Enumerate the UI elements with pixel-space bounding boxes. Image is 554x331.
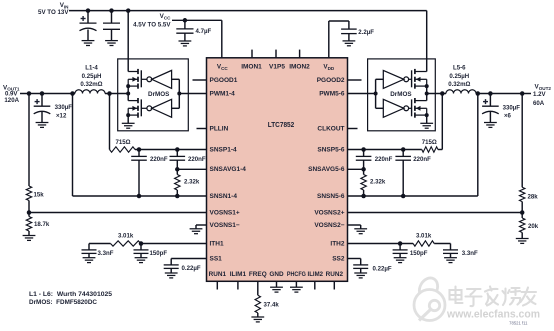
svg-text:ITH1: ITH1 bbox=[210, 241, 224, 248]
wire 4.7uF to ground bbox=[184, 33, 186, 41]
svg-text:L1 - L6: Wurth 744301025: L1 - L6: Wurth 744301025 bbox=[29, 291, 113, 298]
junction VOUT2 sense bbox=[476, 91, 481, 96]
junction snsp cap2 right bbox=[401, 147, 406, 152]
svg-text:DrMOS: DrMOS bbox=[390, 91, 411, 98]
capacitor 220nF left inner bbox=[170, 156, 186, 160]
svg-text:SNSAVG1-4: SNSAVG1-4 bbox=[210, 166, 247, 173]
node VIN rail bbox=[69, 10, 427, 12]
wire HS source to SW / LS drain right bbox=[426, 86, 428, 101]
inductor L1-4 bbox=[75, 90, 105, 94]
ground bbox=[354, 273, 367, 278]
wire HS source to SW / LS drain bbox=[127, 86, 129, 101]
svg-text:VOSNS1−: VOSNS1− bbox=[210, 222, 240, 229]
buffer right bottom driver bbox=[383, 99, 404, 117]
junction VIN bulk cap bbox=[86, 8, 91, 13]
ground bbox=[484, 123, 497, 128]
wire 18.7k to ground bbox=[28, 231, 30, 236]
resistor 3.01k right bbox=[413, 241, 434, 246]
svg-text:IMON2: IMON2 bbox=[289, 64, 310, 71]
node VCC rail bbox=[172, 19, 222, 21]
wire buffer input join bbox=[178, 79, 180, 108]
svg-text:SNSN1-4: SNSN1-4 bbox=[210, 193, 238, 200]
junction SNSN 2.32k right bbox=[361, 194, 366, 199]
ground bbox=[516, 239, 529, 244]
wire buffer2 input bbox=[172, 107, 180, 109]
wire right buffer2 input bbox=[376, 107, 384, 109]
ground bbox=[135, 258, 148, 263]
svg-text:78521 f11: 78521 f11 bbox=[509, 321, 528, 326]
junction VOUT2 divider bbox=[520, 91, 525, 96]
junction SNSN 2.32k left bbox=[175, 194, 180, 199]
wire 2.2uF stub bbox=[348, 21, 350, 29]
wire right buffer input join bbox=[375, 79, 377, 108]
wire VIN cap1 stub bbox=[87, 11, 89, 24]
capacitor 0.22uF right bbox=[353, 265, 368, 269]
transistor right low-side MOSFET bbox=[404, 98, 427, 118]
junction VOUT1 sense bbox=[70, 91, 75, 96]
svg-text:20k: 20k bbox=[528, 223, 539, 230]
svg-text:5V TO 13V: 5V TO 13V bbox=[38, 9, 69, 16]
svg-text:ITH2: ITH2 bbox=[330, 241, 344, 248]
wire 330uF right stub bbox=[489, 94, 491, 107]
wire SNSAVG1-4 bbox=[177, 168, 206, 170]
ground bbox=[354, 229, 367, 234]
node VOUT2 rail bbox=[427, 93, 446, 95]
wire SNSAVG5-6 bbox=[348, 168, 364, 170]
svg-text:0.22µF: 0.22µF bbox=[373, 265, 392, 272]
wire VOUT2 bbox=[476, 93, 531, 95]
wire VOSNS1- bbox=[196, 224, 207, 226]
ground bbox=[394, 258, 407, 263]
wire IMON2 stub bbox=[299, 50, 301, 58]
junction ITH1 bbox=[139, 241, 144, 246]
resistor 715 ohm right bbox=[422, 147, 438, 152]
wire RUN1 stub bbox=[216, 281, 218, 289]
resistor 18.7k bbox=[26, 217, 31, 232]
junction divider tap left bbox=[27, 210, 32, 215]
wire LS source to ground bbox=[127, 115, 129, 123]
junction VOUT1 cap bbox=[40, 91, 45, 96]
svg-text:VCC: VCC bbox=[160, 13, 172, 20]
watermark logo circle bbox=[414, 275, 445, 321]
wire cap2 to snsavg left bbox=[176, 160, 178, 174]
capacitor 3.3nF left bbox=[82, 250, 97, 254]
svg-text:0.25µH: 0.25µH bbox=[449, 73, 469, 80]
wire 2.2uF to ground bbox=[348, 34, 350, 41]
wire SS2 bbox=[348, 258, 361, 260]
ground bbox=[23, 236, 36, 241]
wire cap1 to ground bbox=[87, 30, 89, 41]
svg-text:VOUT2: VOUT2 bbox=[535, 84, 552, 91]
svg-text:0.25µH: 0.25µH bbox=[82, 73, 102, 80]
wire RUN2 stub bbox=[333, 281, 335, 289]
svg-text:DrMOS: FDMF5820DC: DrMOS: FDMF5820DC bbox=[29, 299, 98, 306]
svg-text:LTC7852: LTC7852 bbox=[268, 122, 295, 129]
svg-text:1.2V: 1.2V bbox=[533, 91, 546, 98]
svg-text:28k: 28k bbox=[528, 194, 539, 201]
svg-text:VOSNS2−: VOSNS2− bbox=[314, 222, 344, 229]
junction snsp cap2 left bbox=[175, 147, 180, 152]
capacitor 220nF left outer bbox=[131, 156, 147, 160]
wire 150pF gnd right bbox=[399, 253, 401, 257]
wire 2.32k to SNSN right bbox=[363, 190, 365, 196]
svg-text:L1-4: L1-4 bbox=[85, 65, 98, 72]
svg-text:www.elecfans.com: www.elecfans.com bbox=[446, 309, 540, 321]
wire cap1 stub right bbox=[363, 150, 365, 157]
wire CLKOUT stub bbox=[348, 128, 358, 130]
svg-text:715Ω: 715Ω bbox=[422, 139, 437, 146]
wire PHCFG stub bbox=[295, 281, 297, 287]
capacitor 3.3nF right bbox=[443, 250, 458, 254]
wire ITH2 right segment bbox=[434, 243, 450, 245]
wire SS1 cap stub bbox=[170, 259, 172, 265]
wire VOSNS2- stub bbox=[360, 225, 362, 229]
svg-text:SNSP1-4: SNSP1-4 bbox=[210, 147, 237, 154]
junction SNSN cap right bbox=[401, 194, 406, 199]
svg-text:SS1: SS1 bbox=[210, 256, 223, 263]
wire VOUT2 to 28k bbox=[521, 94, 523, 188]
inductor L5-6 bbox=[446, 90, 476, 94]
wire SNSN1-4 bbox=[73, 195, 207, 197]
wire SS1 bbox=[171, 258, 206, 260]
resistor 20k bbox=[520, 218, 525, 233]
wire 150pF gnd left bbox=[140, 253, 142, 257]
ground bbox=[82, 41, 95, 46]
svg-text:GND: GND bbox=[269, 271, 284, 278]
wire ILIM1 stub bbox=[237, 281, 239, 289]
wire buffer1 input bbox=[172, 78, 180, 80]
svg-text:PWM5-6: PWM5-6 bbox=[319, 91, 345, 98]
wire 3.3nF stub left bbox=[88, 244, 90, 250]
svg-text:×12: ×12 bbox=[56, 112, 67, 119]
svg-text:330µF: 330µF bbox=[55, 104, 73, 111]
wire 3.3nF gnd right bbox=[450, 253, 452, 257]
svg-text:60A: 60A bbox=[533, 100, 545, 107]
svg-text:3.3nF: 3.3nF bbox=[98, 250, 114, 257]
capacitor C 2.2uF bbox=[341, 29, 357, 33]
resistor 2.32k right bbox=[361, 175, 366, 191]
wire cap to snsavg right bbox=[363, 160, 365, 174]
wire 2.32k to SNSN left bbox=[176, 190, 178, 196]
wire VOSNS1- stub bbox=[195, 225, 197, 229]
capacitor 0.22uF left bbox=[164, 265, 179, 269]
svg-text:4.5V TO 5.5V: 4.5V TO 5.5V bbox=[133, 21, 171, 28]
wire VOUT1 to 15k bbox=[28, 94, 30, 187]
wire VOSNS2+ bbox=[348, 212, 523, 214]
capacitor 220nF right inner bbox=[356, 156, 372, 160]
svg-text:L5-6: L5-6 bbox=[453, 65, 466, 72]
wire 330uF right to ground bbox=[489, 112, 491, 123]
resistor 715 ohm left bbox=[110, 147, 136, 152]
capacitor VIN ceramic bbox=[103, 23, 120, 29]
wire GND pin stub bbox=[276, 281, 278, 287]
wire VOUT1 down to SNSN bbox=[72, 94, 74, 197]
svg-text:120A: 120A bbox=[4, 97, 19, 104]
buffer left top driver bbox=[152, 70, 172, 88]
wire 330uF to ground bbox=[41, 112, 43, 123]
wire VCC cap stub bbox=[184, 20, 186, 29]
wire 37.4k to ground bbox=[257, 313, 259, 317]
watermark chinese text (faked glyph strokes) bbox=[450, 287, 537, 307]
wire 0.22uF gnd left bbox=[170, 268, 172, 273]
svg-text:3.01k: 3.01k bbox=[416, 232, 432, 239]
wire SNSP5-6 bbox=[348, 149, 422, 151]
svg-text:0.22µF: 0.22µF bbox=[182, 265, 201, 272]
wire 150pF stub right bbox=[399, 244, 401, 250]
svg-text:PWM1-4: PWM1-4 bbox=[210, 91, 236, 98]
wire right buffer1 input bbox=[376, 78, 384, 80]
wire ITH1 left segment bbox=[89, 243, 111, 245]
capacitor 150pF left bbox=[134, 250, 149, 254]
resistor 28k bbox=[520, 187, 525, 201]
wire cap2 to ground bbox=[111, 29, 113, 40]
wire 15k to 18.7k bbox=[28, 201, 30, 217]
junction PWM input bbox=[177, 92, 181, 96]
svg-text:220nF: 220nF bbox=[413, 156, 431, 163]
wire right LS source to ground bbox=[426, 115, 428, 123]
wire ITH2 bbox=[348, 243, 414, 245]
svg-text:DrMOS: DrMOS bbox=[148, 91, 169, 98]
svg-text:SNSN5-6: SNSN5-6 bbox=[317, 193, 345, 200]
wire VIN feed into right DrMOS bbox=[426, 11, 428, 72]
junction left SW sense tap bbox=[107, 91, 112, 96]
junction VOUT2 cap bbox=[488, 91, 493, 96]
wire VDD pin up bbox=[328, 21, 330, 58]
svg-text:PLLIN: PLLIN bbox=[210, 126, 229, 133]
ground bbox=[122, 123, 135, 128]
svg-text:CLKOUT: CLKOUT bbox=[317, 126, 344, 133]
wire ITH1 bbox=[141, 243, 207, 245]
transistor left high-side MOSFET bbox=[128, 69, 152, 89]
ground bbox=[36, 123, 49, 128]
svg-text:×6: ×6 bbox=[504, 112, 512, 119]
wire cap2 stub left bbox=[176, 150, 178, 157]
wire cap2 to SNSN right bbox=[402, 160, 404, 196]
wire V1P5 stub bbox=[275, 50, 277, 58]
wire 715 corner right bbox=[438, 149, 442, 151]
svg-text:3.3nF: 3.3nF bbox=[462, 250, 478, 257]
wire SNSN up to VOUT2 bbox=[477, 94, 479, 197]
capacitor C 4.7uF bbox=[176, 29, 193, 33]
wire 330uF stub bbox=[41, 94, 43, 107]
svg-text:ILIM1: ILIM1 bbox=[230, 271, 247, 278]
wire VIN feed into left DrMOS bbox=[127, 11, 129, 72]
capacitor 330uF x6 bbox=[482, 106, 499, 114]
svg-text:VOSNS1+: VOSNS1+ bbox=[210, 210, 240, 217]
capacitor 330uF x12 bbox=[34, 106, 51, 114]
svg-text:VOSNS2+: VOSNS2+ bbox=[314, 210, 344, 217]
wire 20k to ground bbox=[521, 233, 523, 239]
wire PGOOD2 stub bbox=[348, 79, 362, 81]
svg-text:FREQ: FREQ bbox=[249, 271, 267, 278]
transistor block: right DrMOS box bbox=[368, 59, 436, 131]
wire cap1 stub left bbox=[138, 150, 140, 157]
svg-text:SNSAVG5-6: SNSAVG5-6 bbox=[308, 166, 345, 173]
junction SNSAVG right bbox=[361, 167, 366, 172]
wire SNSN5-6 bbox=[348, 195, 478, 197]
op-amp U1 : LTC7852 controller IC body bbox=[207, 58, 348, 281]
wire SW to inductor left bbox=[105, 93, 128, 95]
ground bbox=[251, 317, 264, 322]
wire PWM1-4 bbox=[179, 93, 206, 95]
svg-text:3.01k: 3.01k bbox=[118, 232, 134, 239]
svg-text:ILIM2: ILIM2 bbox=[308, 271, 324, 278]
node VOUT1 rail bbox=[20, 93, 75, 95]
svg-text:2.2µF: 2.2µF bbox=[358, 29, 374, 36]
capacitor 220nF right outer bbox=[395, 156, 411, 160]
svg-text:PHCFG: PHCFG bbox=[287, 271, 306, 278]
wire VIN cap2 stub bbox=[111, 11, 113, 24]
junction VIN left DrMOS feed bbox=[126, 8, 131, 13]
ground bbox=[444, 258, 457, 263]
junction VIN ceramic cap bbox=[109, 8, 114, 13]
ground bbox=[105, 41, 118, 46]
svg-text:RUN2: RUN2 bbox=[326, 271, 344, 278]
svg-text:330µF: 330µF bbox=[503, 105, 521, 112]
ground bbox=[179, 41, 192, 46]
svg-text:SS2: SS2 bbox=[332, 256, 345, 263]
ground bbox=[270, 287, 283, 292]
junction snsp cap1 right bbox=[361, 147, 366, 152]
wire PWM5-6 bbox=[348, 93, 376, 95]
resistor 37.4k bbox=[255, 295, 260, 313]
svg-text:2.32k: 2.32k bbox=[184, 178, 200, 185]
svg-text:150pF: 150pF bbox=[150, 250, 168, 257]
junction ITH2 bbox=[398, 241, 403, 246]
junction VOUT1 divider bbox=[27, 91, 32, 96]
wire SW to 715ohm right bbox=[441, 94, 443, 150]
junction right SW sense tap bbox=[440, 91, 445, 96]
wire SW to 715ohm left bbox=[109, 94, 111, 150]
svg-text:0.32mΩ: 0.32mΩ bbox=[448, 81, 470, 88]
buffer right top driver bbox=[383, 70, 404, 88]
junction left SW node bbox=[126, 92, 130, 96]
wire VOSNS2- bbox=[348, 224, 361, 226]
svg-text:0.32mΩ: 0.32mΩ bbox=[80, 81, 102, 88]
wire SS2 cap stub bbox=[360, 259, 362, 265]
svg-text:2.32k: 2.32k bbox=[370, 178, 386, 185]
ground bbox=[190, 229, 203, 234]
transistor block: left DrMOS box bbox=[118, 59, 189, 131]
wire ILIM2 stub bbox=[314, 281, 316, 289]
capacitor 150pF right bbox=[393, 250, 408, 254]
wire VDD to cap bbox=[329, 20, 349, 22]
svg-text:PGOOD2: PGOOD2 bbox=[317, 77, 345, 84]
svg-text:15k: 15k bbox=[34, 192, 45, 199]
capacitor VIN bulk electrolytic bbox=[80, 23, 97, 31]
svg-text:715Ω: 715Ω bbox=[115, 139, 130, 146]
junction SNSN cap1 left bbox=[137, 194, 142, 199]
svg-text:150pF: 150pF bbox=[410, 250, 428, 257]
svg-text:220nF: 220nF bbox=[188, 156, 206, 163]
wire cap1 to SNSN left bbox=[138, 160, 140, 196]
wire VOSNS1+ bbox=[29, 212, 207, 214]
wire PLLIN stub bbox=[197, 128, 207, 130]
svg-text:PGOOD1: PGOOD1 bbox=[210, 77, 238, 84]
junction divider tap right bbox=[520, 210, 525, 215]
wire cap2 stub right bbox=[402, 150, 404, 157]
wire VCC to IC pin bbox=[221, 20, 223, 58]
resistor 2.32k left bbox=[175, 175, 180, 191]
buffer left bottom driver bbox=[152, 99, 172, 117]
ground bbox=[420, 123, 433, 128]
wire 3.3nF gnd left bbox=[88, 253, 90, 257]
junction VCC cap bbox=[183, 18, 188, 23]
svg-text:18.7k: 18.7k bbox=[34, 221, 50, 228]
wire 0.22uF gnd right bbox=[360, 268, 362, 273]
resistor 3.01k left bbox=[111, 241, 141, 246]
svg-text:220nF: 220nF bbox=[375, 156, 393, 163]
junction snsp cap1 left bbox=[137, 147, 142, 152]
svg-text:V1P5: V1P5 bbox=[269, 64, 285, 71]
resistor 15k bbox=[26, 186, 31, 201]
svg-text:37.4k: 37.4k bbox=[264, 301, 280, 308]
junction right SW node bbox=[425, 92, 429, 96]
wire PGOOD1 stub bbox=[193, 79, 207, 81]
svg-text:SNSP5-6: SNSP5-6 bbox=[317, 147, 344, 154]
wire 150pF stub left bbox=[140, 244, 142, 250]
ground bbox=[343, 41, 356, 46]
ground bbox=[165, 273, 178, 278]
ground bbox=[83, 258, 96, 263]
transistor right high-side MOSFET bbox=[404, 69, 427, 89]
svg-text:220nF: 220nF bbox=[150, 156, 168, 163]
wire IMON1 stub bbox=[251, 50, 253, 58]
wire 28k to 20k bbox=[521, 202, 523, 218]
junction right PWM input bbox=[374, 92, 378, 96]
ground bbox=[290, 287, 303, 292]
wire 3.3nF stub right bbox=[450, 244, 452, 250]
wire SNSP1-4 bbox=[135, 149, 207, 151]
svg-text:4.7µF: 4.7µF bbox=[196, 28, 212, 35]
svg-text:RUN1: RUN1 bbox=[209, 271, 227, 278]
wire FREQ stub bbox=[257, 281, 259, 295]
transistor left low-side MOSFET bbox=[128, 98, 152, 118]
svg-text:IMON1: IMON1 bbox=[241, 64, 262, 71]
junction SNSAVG left bbox=[175, 167, 180, 172]
